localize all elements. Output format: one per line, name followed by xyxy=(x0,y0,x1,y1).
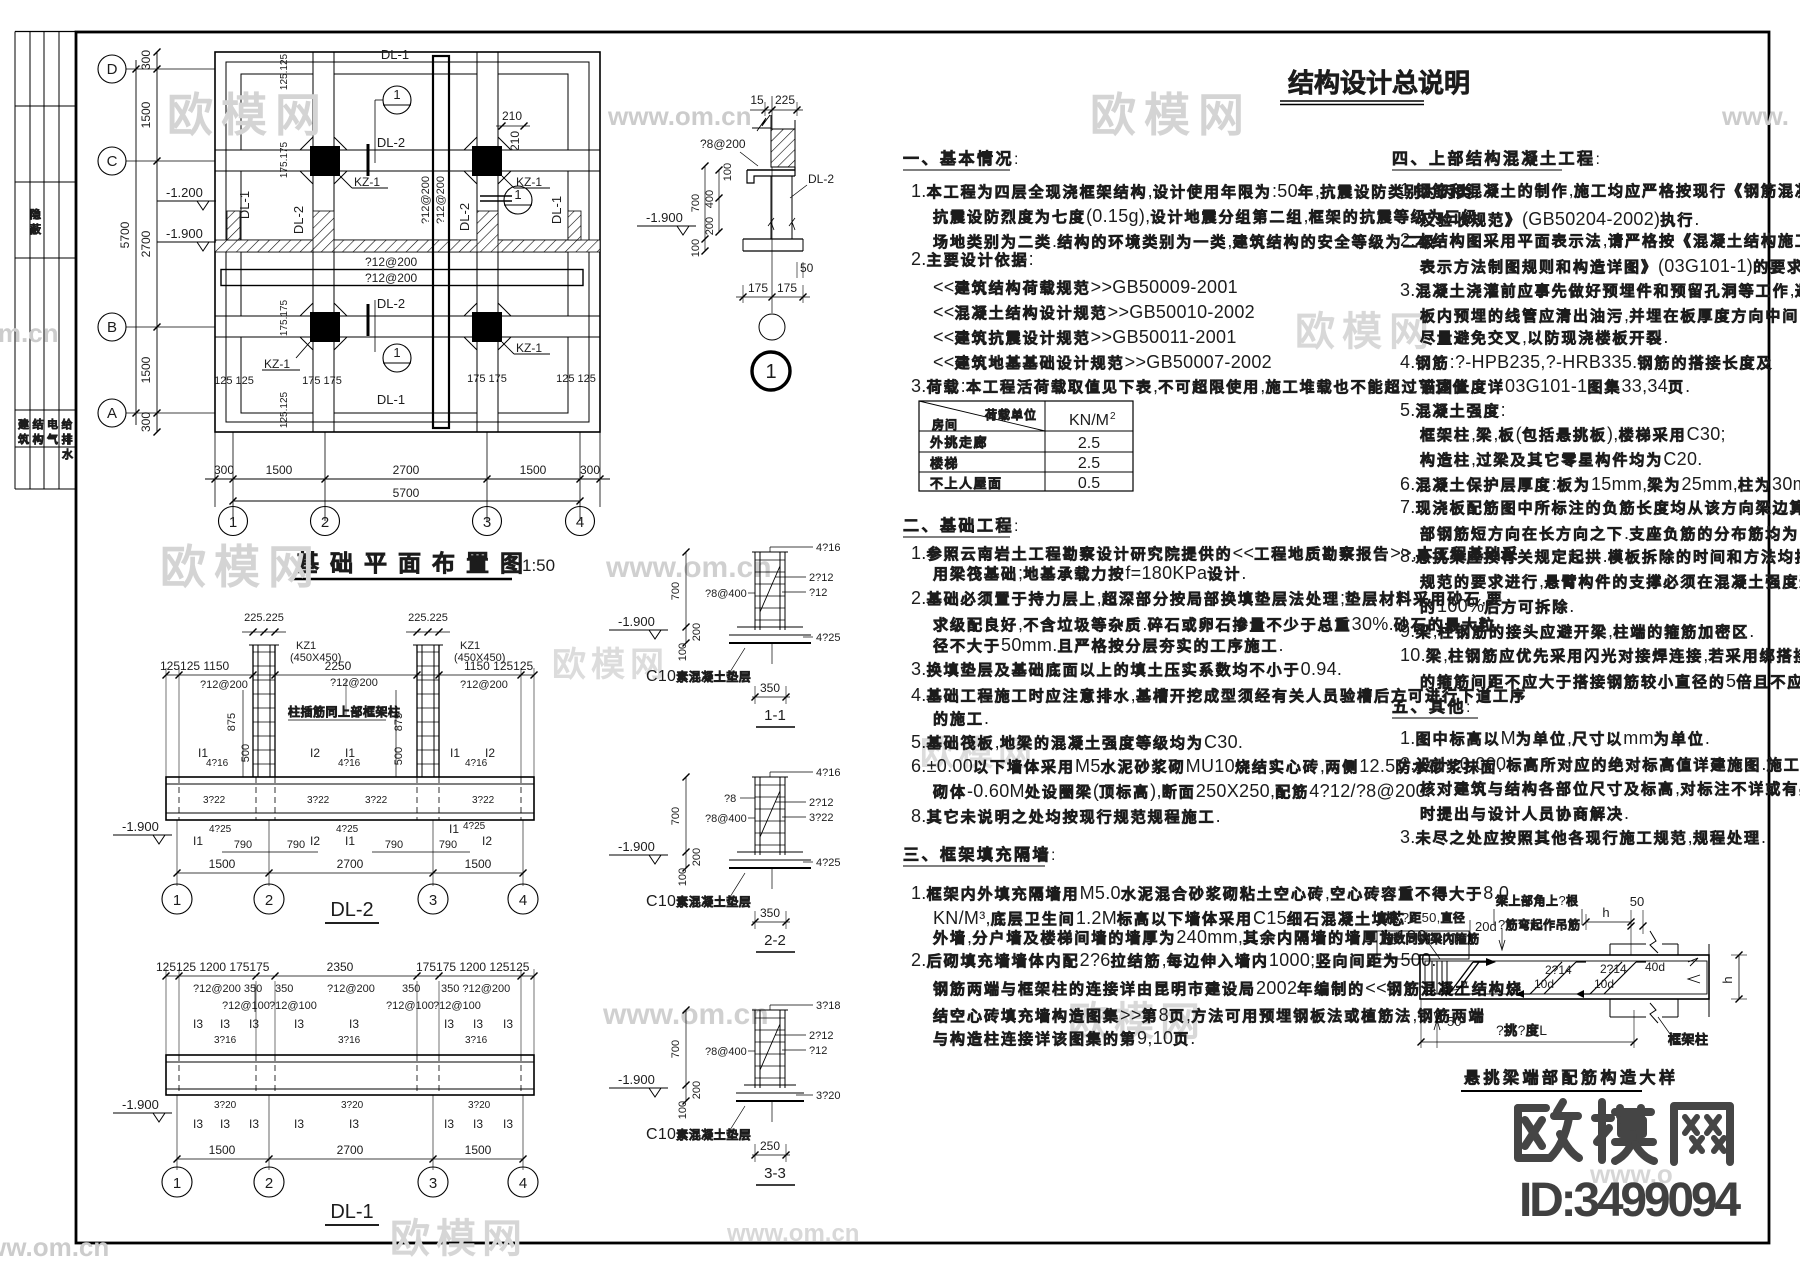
svg-text:KZ-1: KZ-1 xyxy=(264,357,290,371)
svg-text:?12@200: ?12@200 xyxy=(420,176,432,224)
svg-text:-1.200: -1.200 xyxy=(166,185,203,200)
footing pad row3 col3 xyxy=(498,252,568,316)
svg-text:I3: I3 xyxy=(220,1017,230,1031)
svg-text:2?12: 2?12 xyxy=(809,797,833,809)
svg-text:?12@200: ?12@200 xyxy=(330,677,378,689)
svg-text:500: 500 xyxy=(393,747,405,765)
detail left stirrups xyxy=(1431,961,1433,994)
svg-text:?8@200: ?8@200 xyxy=(700,137,746,151)
svg-text:?8@400: ?8@400 xyxy=(705,588,747,600)
svg-text:350: 350 xyxy=(760,681,780,695)
detail mid bent bars 2 xyxy=(1590,962,1622,994)
svg-text:300: 300 xyxy=(139,412,153,432)
svg-text:125 125: 125 125 xyxy=(556,373,596,385)
svg-text:1500: 1500 xyxy=(465,1143,492,1157)
section 3-3 column stub xyxy=(754,1010,756,1088)
svg-text:1: 1 xyxy=(765,361,776,383)
svg-text:?12@200: ?12@200 xyxy=(327,983,375,995)
svg-text:1500: 1500 xyxy=(139,101,153,128)
svg-text:DL-1: DL-1 xyxy=(330,1201,373,1223)
svg-text:3?20: 3?20 xyxy=(214,1100,237,1111)
svg-text:的施工.: 的施工. xyxy=(933,708,989,728)
svg-text:1: 1 xyxy=(514,187,521,202)
svg-text:ID:3499094: ID:3499094 xyxy=(1519,1174,1741,1227)
svg-text:300: 300 xyxy=(214,463,234,477)
svg-text:KZ-1: KZ-1 xyxy=(516,341,542,355)
svg-text:www.om.cn: www.om.cn xyxy=(726,1220,859,1247)
svg-text:200: 200 xyxy=(691,848,703,866)
svg-text:4?16: 4?16 xyxy=(338,758,361,769)
svg-text:基础平面布置图: 基础平面布置图 xyxy=(296,550,534,576)
svg-text:I2: I2 xyxy=(310,746,320,760)
svg-text:-1.900: -1.900 xyxy=(646,210,683,225)
svg-text:欧模网: 欧模网 xyxy=(390,1217,528,1261)
svg-text:1500: 1500 xyxy=(520,463,547,477)
svg-text:20d: 20d xyxy=(1475,919,1497,934)
svg-text:欧模网: 欧模网 xyxy=(1090,89,1252,141)
svg-text:I3: I3 xyxy=(193,1017,203,1031)
svg-text:3?18: 3?18 xyxy=(816,1000,840,1012)
svg-text:构: 构 xyxy=(33,432,44,446)
svg-text:二、基础工程:: 二、基础工程: xyxy=(903,516,1019,535)
svg-text:KZ1: KZ1 xyxy=(460,640,480,652)
svg-text:?12: ?12 xyxy=(809,1045,827,1057)
svg-text:300: 300 xyxy=(580,463,600,477)
plan bottom dimension chain xyxy=(214,432,216,507)
svg-text:DL-2: DL-2 xyxy=(377,135,405,150)
footing pad row2 col3 xyxy=(498,171,568,240)
svg-text:175: 175 xyxy=(777,281,797,295)
svg-text:径不大于50mm.且严格按分层夯实的工序施工.: 径不大于50mm.且严格按分层夯实的工序施工. xyxy=(933,635,1284,655)
svg-text:2700: 2700 xyxy=(139,230,153,257)
DL-1 beam body xyxy=(166,1055,534,1095)
DL-2 footing beam body xyxy=(166,777,534,820)
svg-text:I3: I3 xyxy=(220,1117,230,1131)
svg-text:790: 790 xyxy=(287,839,305,851)
svg-text:4?25: 4?25 xyxy=(816,632,840,644)
svg-text:3?22: 3?22 xyxy=(809,812,833,824)
grid axis 3 bubble xyxy=(486,507,488,521)
detail mid bent bars 1 xyxy=(1530,962,1562,994)
svg-text:350: 350 xyxy=(275,983,293,995)
svg-text:3.荷载:本工程活荷载取值见下表,不可超限使用,施工堆载也不: 3.荷载:本工程活荷载取值见下表,不可超限使用,施工堆载也不能超过下述值. xyxy=(911,376,1475,396)
svg-text:KN/M: KN/M xyxy=(1069,412,1109,429)
svg-text:-1.900: -1.900 xyxy=(122,819,159,834)
svg-text:www.om.cn: www.om.cn xyxy=(602,998,769,1031)
svg-text:350 ?12@200: 350 ?12@200 xyxy=(441,983,510,995)
svg-text:7.现浇板配筋图中所标注的负筋长度均从该方向梁边算起.现浇板: 7.现浇板配筋图中所标注的负筋长度均从该方向梁边算起.现浇板底 xyxy=(1400,497,1800,517)
svg-text:2700: 2700 xyxy=(393,463,420,477)
svg-text:6.混凝土保护层厚度:板为15mm,梁为25mm,柱为30m: 6.混凝土保护层厚度:板为15mm,梁为25mm,柱为30mm. xyxy=(1400,474,1800,494)
svg-text:3.未尽之处应按照其他各现行施工规范,规程处理.: 3.未尽之处应按照其他各现行施工规范,规程处理. xyxy=(1400,827,1766,847)
svg-text:-1.900: -1.900 xyxy=(122,1097,159,1112)
svg-text:125.125: 125.125 xyxy=(279,53,290,90)
svg-text:3: 3 xyxy=(429,892,437,909)
svg-text:?8@400: ?8@400 xyxy=(705,1046,747,1058)
svg-text:1500: 1500 xyxy=(209,857,236,871)
column KZ-1 at axis 3/C xyxy=(472,146,502,176)
svg-text:4: 4 xyxy=(519,1175,527,1192)
DL-1 dashed support verticals xyxy=(178,1055,180,1095)
svg-text:DL-2: DL-2 xyxy=(808,172,834,186)
label KZ-1 top-left leader xyxy=(340,176,352,188)
footing pad row1 col1 xyxy=(241,74,313,150)
svg-text:700: 700 xyxy=(670,582,682,600)
svg-text:9.梁,柱钢筋的接头应避开梁,柱端的箍筋加密区.: 9.梁,柱钢筋的接头应避开梁,柱端的箍筋加密区. xyxy=(1400,621,1755,641)
svg-text:4?25: 4?25 xyxy=(463,821,486,832)
svg-text:核对建筑与结构各部位尺寸及标高,对标注不详或有疑问时,应及: 核对建筑与结构各部位尺寸及标高,对标注不详或有疑问时,应及 xyxy=(1420,778,1800,798)
strip beam lines along axis 3 xyxy=(476,52,478,432)
svg-text:2?12: 2?12 xyxy=(809,1030,833,1042)
svg-text:50: 50 xyxy=(800,261,814,275)
svg-text:用梁筏基础;地基承载力按f=180KPa设计.: 用梁筏基础;地基承载力按f=180KPa设计. xyxy=(933,563,1247,583)
svg-text:875: 875 xyxy=(393,713,405,731)
svg-text:4?25: 4?25 xyxy=(816,857,840,869)
svg-text:I3: I3 xyxy=(294,1117,304,1131)
svg-text:锚固长度详03G101-1图集33,34页.: 锚固长度详03G101-1图集33,34页. xyxy=(1420,376,1690,396)
svg-text:790: 790 xyxy=(439,839,457,851)
svg-text:8.其它未说明之处均按现行规范规程施工.: 8.其它未说明之处均按现行规范规程施工. xyxy=(911,806,1221,826)
strip beam lines along axis C xyxy=(215,149,600,151)
svg-text:?12@200: ?12@200 xyxy=(460,679,508,691)
section 1-1 column stub xyxy=(754,552,756,630)
grid axis 1 bubble xyxy=(232,507,234,521)
svg-text:KZ1: KZ1 xyxy=(296,640,316,652)
section bubble 1 right xyxy=(504,186,532,214)
svg-text:I3: I3 xyxy=(473,1017,483,1031)
hatch segment axis3 xyxy=(477,211,498,252)
svg-text:2: 2 xyxy=(1110,411,1116,422)
footing pad row1 col3 xyxy=(498,74,568,150)
svg-text:-1.900: -1.900 xyxy=(166,226,203,241)
svg-text:3根,?距50,直径: 3根,?距50,直径 xyxy=(1378,910,1465,925)
svg-text:的100%后方可拆除.: 的100%后方可拆除. xyxy=(1420,596,1575,616)
svg-text:350: 350 xyxy=(402,983,420,995)
svg-text:I3: I3 xyxy=(193,1117,203,1131)
footing pad row3 col2 xyxy=(334,252,477,316)
svg-text:I1: I1 xyxy=(345,834,355,848)
svg-text:225.225: 225.225 xyxy=(408,612,448,624)
svg-text:A: A xyxy=(107,405,117,422)
svg-text:40d: 40d xyxy=(1645,960,1665,974)
svg-text:3: 3 xyxy=(429,1175,437,1192)
svg-text:3?22: 3?22 xyxy=(365,795,388,806)
svg-text:B: B xyxy=(107,319,117,336)
svg-text:1.钢筋和混凝土的制作,施工均应严格按现行《钢筋混凝土工程施: 1.钢筋和混凝土的制作,施工均应严格按现行《钢筋混凝土工程施工 xyxy=(1400,180,1800,200)
svg-text:1150 125125: 1150 125125 xyxy=(464,659,534,673)
svg-text:I2: I2 xyxy=(482,834,492,848)
svg-text:125125 1150: 125125 1150 xyxy=(160,659,230,673)
hatch segment axis2 xyxy=(313,211,334,252)
svg-text:1.图中标高以M为单位,尺寸以mm为单位.: 1.图中标高以M为单位,尺寸以mm为单位. xyxy=(1400,728,1710,748)
svg-text:250: 250 xyxy=(760,1139,780,1153)
svg-text:3?16: 3?16 xyxy=(465,1035,488,1046)
svg-text:电: 电 xyxy=(47,417,58,431)
svg-text:构造柱,过梁及其它零星构件均为C20.: 构造柱,过梁及其它零星构件均为C20. xyxy=(1420,449,1703,469)
detail right dim h xyxy=(1738,955,1740,999)
svg-text:0.5: 0.5 xyxy=(1078,475,1100,492)
svg-text:www.: www. xyxy=(1721,101,1789,131)
svg-text:三、框架填充隔墙:: 三、框架填充隔墙: xyxy=(903,845,1056,864)
title strip top rule xyxy=(15,31,76,33)
svg-text:?12@200: ?12@200 xyxy=(365,271,418,285)
svg-text:400: 400 xyxy=(704,190,716,208)
svg-text:2: 2 xyxy=(321,514,329,531)
svg-text:790: 790 xyxy=(234,839,252,851)
svg-text:h: h xyxy=(1602,905,1609,920)
svg-text:4?16: 4?16 xyxy=(465,758,488,769)
svg-text:210: 210 xyxy=(502,109,522,123)
svg-text:D: D xyxy=(107,61,118,78)
svg-text:1-1: 1-1 xyxy=(764,707,786,724)
svg-text:1: 1 xyxy=(393,87,400,102)
plan left dimension chain xyxy=(156,52,158,432)
footing pad row4 col2 xyxy=(334,337,477,413)
svg-text:200: 200 xyxy=(704,217,716,235)
svg-text:50: 50 xyxy=(1447,1014,1461,1029)
svg-text:欧模网: 欧模网 xyxy=(1295,310,1436,354)
DL-1 axis bubbles 1-4 xyxy=(162,1167,192,1197)
svg-text:?12@200 350: ?12@200 350 xyxy=(193,983,262,995)
svg-text:I1: I1 xyxy=(449,822,459,836)
label KZ-1 top-right leader xyxy=(502,176,514,188)
svg-text:2.后砌填充墙墙体内配2?6拉结筋,每边伸入墙内1000;竖: 2.后砌填充墙墙体内配2?6拉结筋,每边伸入墙内1000;竖向间距为500. xyxy=(911,950,1437,970)
svg-text:200: 200 xyxy=(691,1081,703,1099)
section left dims 700/400/200/100 xyxy=(704,166,706,251)
svg-text:C10素混凝土垫层: C10素混凝土垫层 xyxy=(646,893,751,910)
svg-text:I3: I3 xyxy=(249,1017,259,1031)
svg-text:DL-2: DL-2 xyxy=(457,203,472,231)
svg-text:-1.900: -1.900 xyxy=(618,614,655,629)
svg-text:<<建筑地基基础设计规范>>GB50007-2002: <<建筑地基基础设计规范>>GB50007-2002 xyxy=(933,352,1272,372)
section 1-1 footing xyxy=(737,626,803,628)
svg-text:2?14: 2?14 xyxy=(1600,962,1627,976)
svg-text:3.混凝土浇灌前应事先做好预埋件和预留孔洞等工作,避免事后打: 3.混凝土浇灌前应事先做好预埋件和预留孔洞等工作,避免事后打凿. xyxy=(1400,280,1800,300)
svg-text:KN/M³,底层卫生间1.2M标高以下墙体采用C15细石混凝: KN/M³,底层卫生间1.2M标高以下墙体采用C15细石混凝土填芯. xyxy=(933,908,1411,928)
svg-text:?12@100: ?12@100 xyxy=(269,1000,317,1012)
svg-text:1: 1 xyxy=(173,892,181,909)
section 2-2 column stub xyxy=(754,777,756,855)
svg-text:五、其他:: 五、其他: xyxy=(1392,697,1471,716)
svg-text:4?16: 4?16 xyxy=(206,758,229,769)
grid axis D xyxy=(126,68,215,70)
svg-text:I3: I3 xyxy=(503,1017,513,1031)
svg-text:875: 875 xyxy=(226,713,238,731)
svg-text:I3: I3 xyxy=(444,1117,454,1131)
beam bottom flange xyxy=(743,238,803,240)
svg-text:15: 15 xyxy=(750,93,764,107)
svg-text:砌体-0.60M处设圈梁(顶标高),断面250X250,配筋: 砌体-0.60M处设圈梁(顶标高),断面250X250,配筋4?12/?8@20… xyxy=(932,781,1431,801)
svg-text:建: 建 xyxy=(18,417,30,431)
svg-text:1: 1 xyxy=(229,514,237,531)
svg-text:?12: ?12 xyxy=(809,587,827,599)
svg-text:3-3: 3-3 xyxy=(764,1165,786,1182)
svg-text:I3: I3 xyxy=(503,1117,513,1131)
svg-text:8.悬挑梁应按有关规定起拱.模板拆除的时间和方法均按照现行施: 8.悬挑梁应按有关规定起拱.模板拆除的时间和方法均按照现行施工 xyxy=(1400,546,1800,566)
DL-2 column at axis 3 xyxy=(416,645,418,777)
hatched wall stub xyxy=(771,129,795,167)
svg-text:荷载单位: 荷载单位 xyxy=(984,407,1037,422)
svg-text:700: 700 xyxy=(670,1040,682,1058)
svg-text:100: 100 xyxy=(677,643,689,661)
svg-text:125 125: 125 125 xyxy=(214,375,254,387)
svg-text:的箍筋间距不应大于搭接钢筋较小直径的5倍且不应大于100.: 的箍筋间距不应大于搭接钢筋较小直径的5倍且不应大于100. xyxy=(1420,671,1800,691)
footing pad row1 col2 xyxy=(334,74,477,150)
svg-text:?12@100: ?12@100 xyxy=(222,1000,270,1012)
svg-text:700: 700 xyxy=(670,807,682,825)
svg-text:框架柱: 框架柱 xyxy=(1668,1032,1709,1047)
svg-text:3?20: 3?20 xyxy=(816,1090,840,1102)
svg-text:I3: I3 xyxy=(349,1117,359,1131)
svg-text:DL-2: DL-2 xyxy=(377,296,405,311)
svg-text:1: 1 xyxy=(173,1175,181,1192)
svg-text:3?16: 3?16 xyxy=(214,1035,237,1046)
svg-text:175.175: 175.175 xyxy=(279,299,290,336)
svg-text:210: 210 xyxy=(508,131,522,151)
svg-text:?筋弯起作吊筋: ?筋弯起作吊筋 xyxy=(1498,917,1581,932)
svg-text:2: 2 xyxy=(265,892,273,909)
logo char 欧 xyxy=(1518,1104,1546,1112)
svg-text:I1: I1 xyxy=(193,834,203,848)
svg-text:I3: I3 xyxy=(294,1017,304,1031)
svg-text:225.225: 225.225 xyxy=(244,612,284,624)
detail bent-up bar with hook xyxy=(1449,962,1473,994)
svg-text:175175 1200 125125: 175175 1200 125125 xyxy=(416,960,530,974)
svg-text:外挑走廊: 外挑走廊 xyxy=(929,435,988,450)
detail leader to stirrups xyxy=(1425,938,1440,959)
wall section centerline xyxy=(771,96,773,313)
svg-text:1500: 1500 xyxy=(139,356,153,383)
svg-text:1500: 1500 xyxy=(209,1143,236,1157)
svg-text:2.本结构图采用平面表示法,请严格按《混凝土结构施工图平面整: 2.本结构图采用平面表示法,请严格按《混凝土结构施工图平面整体 xyxy=(1400,230,1800,250)
column KZ-1 at axis 3/B xyxy=(472,312,502,342)
footing pad row4 col3 xyxy=(498,337,568,413)
svg-text:C10素混凝土垫层: C10素混凝土垫层 xyxy=(646,1126,751,1143)
svg-text:5.基础筏板,地梁的混凝土强度等级均为C30.: 5.基础筏板,地梁的混凝土强度等级均为C30. xyxy=(911,732,1243,752)
svg-text:结空心砖填充墙构造图集>>第8页,方法可用预埋钢板法或植筋法: 结空心砖填充墙构造图集>>第8页,方法可用预埋钢板法或植筋法,钢筋两端 xyxy=(933,1005,1486,1025)
svg-text:3?22: 3?22 xyxy=(472,795,495,806)
section bubble 1 top xyxy=(383,86,411,114)
svg-text:5700: 5700 xyxy=(393,486,420,500)
svg-text:100: 100 xyxy=(677,868,689,886)
svg-text:部钢筋短方向在长方向之下.支座负筋的分布筋均为?6@200.: 部钢筋短方向在长方向之下.支座负筋的分布筋均为?6@200. xyxy=(1420,523,1800,543)
svg-text:及验收规范》(GB50204-2002)执行.: 及验收规范》(GB50204-2002)执行. xyxy=(1420,209,1700,229)
svg-text:?12@200: ?12@200 xyxy=(365,255,418,269)
section 3-3 footing xyxy=(744,1084,796,1086)
svg-text:2700: 2700 xyxy=(337,1143,364,1157)
svg-text:4.钢筋:?-HPB235,?-HRB335.钢筋的搭接长度: 4.钢筋:?-HPB235,?-HRB335.钢筋的搭接长度及 xyxy=(1400,352,1773,372)
svg-text:柱插筋同上部框架柱: 柱插筋同上部框架柱 xyxy=(288,704,401,719)
svg-text:2.5: 2.5 xyxy=(1078,435,1100,452)
svg-text:<<建筑结构荷载规范>>GB50009-2001: <<建筑结构荷载规范>>GB50009-2001 xyxy=(933,277,1238,297)
svg-text:I3: I3 xyxy=(473,1117,483,1131)
svg-text:筑: 筑 xyxy=(18,432,29,446)
svg-text:50: 50 xyxy=(1630,894,1644,909)
grid axis A xyxy=(126,412,215,414)
svg-text:3?22: 3?22 xyxy=(307,795,330,806)
svg-text:排: 排 xyxy=(62,432,73,446)
svg-text:?12@100: ?12@100 xyxy=(386,1000,434,1012)
svg-text:700: 700 xyxy=(690,194,702,212)
svg-text:4: 4 xyxy=(519,892,527,909)
svg-text:欧模网: 欧模网 xyxy=(167,89,329,141)
section bubble 1 bottom xyxy=(383,344,411,372)
column KZ-1 at axis 2/B xyxy=(310,312,340,342)
svg-text:350: 350 xyxy=(760,906,780,920)
grid axis 2 bubble xyxy=(324,507,326,521)
section 2-2 footing xyxy=(737,851,803,853)
svg-text:DL-2: DL-2 xyxy=(291,206,306,234)
svg-text:10d: 10d xyxy=(1534,977,1554,991)
detail top dim h/50 xyxy=(1586,921,1631,923)
svg-text:5.混凝土强度:: 5.混凝土强度: xyxy=(1400,400,1506,420)
svg-text:300: 300 xyxy=(139,50,153,70)
svg-text:I1: I1 xyxy=(450,746,460,760)
svg-text:125125 1200 175175: 125125 1200 175175 xyxy=(156,960,270,974)
svg-text:200: 200 xyxy=(691,623,703,641)
svg-text:10.梁,柱钢筋应优先采用闪光对接焊连接,若采用绑搭接,则搭: 10.梁,柱钢筋应优先采用闪光对接焊连接,若采用绑搭接,则搭接区段 xyxy=(1400,645,1800,665)
detail right column edge xyxy=(1708,944,1710,1017)
svg-text:5700: 5700 xyxy=(118,221,132,248)
svg-text:尽量避免交叉,以防现浇楼板开裂.: 尽量避免交叉,以防现浇楼板开裂. xyxy=(1420,327,1669,347)
detail column above-beam lines xyxy=(1610,943,1646,945)
svg-text:一、基本情况:: 一、基本情况: xyxy=(903,149,1019,168)
svg-text:4?16: 4?16 xyxy=(816,542,840,554)
svg-text:500: 500 xyxy=(240,744,252,762)
svg-text:C10素混凝土垫层: C10素混凝土垫层 xyxy=(646,668,751,685)
svg-text:3?22: 3?22 xyxy=(203,795,226,806)
strip beam lines along axis 2 xyxy=(312,52,314,432)
label KZ-1 bottom-left leader xyxy=(296,342,310,358)
svg-text:2250: 2250 xyxy=(325,659,352,673)
svg-text:2?14: 2?14 xyxy=(1545,963,1572,977)
footing pad row2 col2 xyxy=(334,171,477,240)
svg-text:-1.900: -1.900 xyxy=(618,1072,655,1087)
svg-text:4?16: 4?16 xyxy=(816,767,840,779)
svg-text:DL-1: DL-1 xyxy=(381,47,409,62)
svg-text:I3: I3 xyxy=(249,1117,259,1131)
axis bubble 1 bold xyxy=(752,352,790,390)
svg-text:1:50: 1:50 xyxy=(522,556,555,575)
svg-text:100: 100 xyxy=(722,163,734,181)
svg-text:175 175: 175 175 xyxy=(467,373,507,385)
svg-text:给: 给 xyxy=(62,417,73,431)
svg-text:www.om.cn: www.om.cn xyxy=(605,551,772,584)
detail column below-beam lines xyxy=(1610,1016,1646,1018)
svg-text:钢筋两端与框架柱的连接详由昆明市建设局2002年编制的<<钢: 钢筋两端与框架柱的连接详由昆明市建设局2002年编制的<<钢筋混凝土结构烧 xyxy=(933,978,1523,998)
DL-2 column at axis 2 xyxy=(252,645,254,777)
svg-text:楼梯: 楼梯 xyxy=(930,456,959,471)
svg-text:225: 225 xyxy=(775,93,795,107)
svg-text:DL-1: DL-1 xyxy=(549,196,564,224)
svg-text:3?20: 3?20 xyxy=(468,1100,491,1111)
footing pad row3 col1 xyxy=(241,252,313,316)
svg-text:?8@400: ?8@400 xyxy=(705,813,747,825)
svg-text:肢数同挑梁内箍筋: 肢数同挑梁内箍筋 xyxy=(1381,931,1479,946)
svg-text:?12@200: ?12@200 xyxy=(435,176,447,224)
detail beam outline xyxy=(1420,955,1709,999)
svg-text:2700: 2700 xyxy=(337,857,364,871)
svg-text:1500: 1500 xyxy=(465,857,492,871)
svg-text:2.设计±0.000标高所对应的绝对标高值详建施图.施工时应: 2.设计±0.000标高所对应的绝对标高值详建施图.施工时应详细 xyxy=(1400,754,1800,774)
svg-text:蔽: 蔽 xyxy=(30,222,42,236)
svg-text:2?12: 2?12 xyxy=(809,572,833,584)
svg-text:不上人屋面: 不上人屋面 xyxy=(930,476,1003,491)
svg-text:DL-1: DL-1 xyxy=(377,392,405,407)
svg-text:欧模网: 欧模网 xyxy=(160,541,322,593)
footing pad row2 col1 xyxy=(241,171,313,240)
svg-text:I2: I2 xyxy=(310,834,320,848)
